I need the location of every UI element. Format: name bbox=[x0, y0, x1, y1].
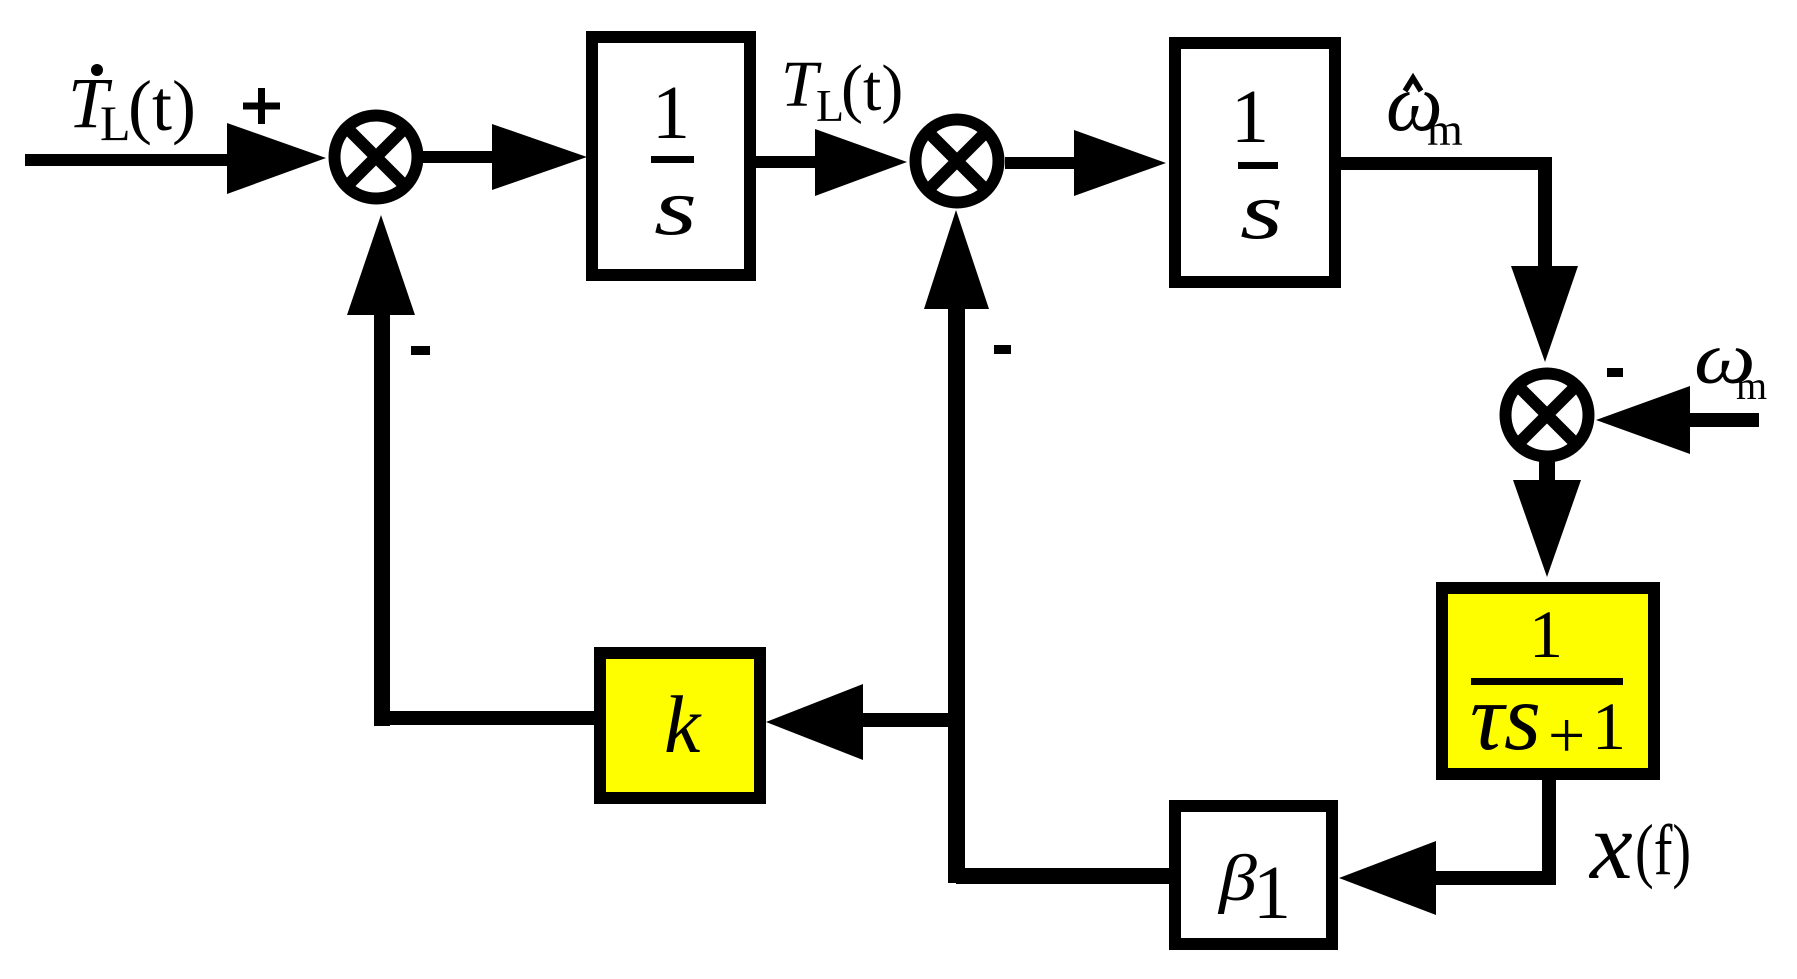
svg-text:(f): (f) bbox=[1635, 809, 1691, 890]
label T_L(t) bbox=[781, 48, 903, 131]
label - sign at S1 bbox=[411, 346, 430, 355]
wire: vertical feedback up to S2 bbox=[948, 308, 965, 883]
label Tdot_L(t) input signal bbox=[68, 63, 196, 151]
svg-text:β: β bbox=[1217, 842, 1258, 914]
wire: omega_m input from right bbox=[1690, 413, 1759, 427]
summing junction S3 bbox=[1506, 374, 1589, 457]
summing junction S1 bbox=[335, 116, 418, 199]
label omega_hat_m estimated speed bbox=[1386, 57, 1463, 155]
arrowhead: into integrator 1 bbox=[492, 124, 587, 190]
wire: k output to corner bbox=[381, 711, 594, 725]
wire: S1 to integrator 1 bbox=[422, 151, 492, 163]
svg-text:+: + bbox=[1548, 699, 1585, 772]
block U4: gain beta1 bbox=[1175, 806, 1332, 944]
arrowhead: up into S2 bbox=[924, 210, 989, 309]
svg-text:1: 1 bbox=[1529, 596, 1563, 672]
svg-text:1: 1 bbox=[1253, 851, 1291, 935]
wire: vertical down to S3 bbox=[1538, 157, 1552, 266]
svg-text:(t): (t) bbox=[128, 66, 196, 146]
wire: horizontal into beta block bbox=[1436, 871, 1556, 885]
svg-text:k: k bbox=[664, 679, 702, 770]
block U2: integrator 1/s bbox=[1175, 43, 1335, 282]
arrowhead: into beta1 block bbox=[1339, 841, 1436, 915]
arrowhead: omega_m into S3 bbox=[1596, 386, 1690, 454]
svg-text:(t): (t) bbox=[841, 52, 903, 125]
label + sign at S1 bbox=[243, 88, 280, 124]
wire: input signal line bbox=[25, 154, 227, 166]
svg-text:1: 1 bbox=[1592, 688, 1626, 764]
arrowhead: up into S1 bbox=[347, 215, 415, 315]
block U5: gain k, yellow bbox=[600, 653, 760, 798]
label x(f) bbox=[1588, 792, 1691, 899]
svg-text:L: L bbox=[816, 80, 844, 131]
svg-text:m: m bbox=[1736, 363, 1767, 408]
wire: integrator 1 to S2 bbox=[756, 156, 815, 168]
svg-text:τs: τs bbox=[1470, 664, 1541, 770]
summing junction S2 bbox=[916, 120, 999, 203]
svg-text:1: 1 bbox=[652, 71, 690, 155]
wire: integrator 2 output to corner bbox=[1341, 157, 1552, 170]
label - sign at S2 bbox=[994, 345, 1011, 354]
label - sign at S3 bbox=[1607, 368, 1623, 377]
label omega_m measured speed bbox=[1694, 317, 1767, 408]
block U3: low-pass filter 1/(tau s + 1), yellow bbox=[1442, 588, 1654, 774]
wire: branch to gain k bbox=[863, 713, 956, 727]
svg-text:x: x bbox=[1588, 792, 1633, 899]
svg-text:s: s bbox=[654, 162, 697, 253]
svg-text:L: L bbox=[100, 95, 131, 151]
wire: vertical feedback up to S1 bbox=[374, 314, 390, 726]
arrowhead: down into summing junction S3 bbox=[1511, 266, 1578, 362]
arrowhead: input into summing junction S1 bbox=[227, 123, 326, 194]
svg-text:1: 1 bbox=[1231, 75, 1269, 159]
wire: filter output down bbox=[1542, 780, 1556, 878]
arrowhead: into integrator 2 bbox=[1074, 130, 1166, 196]
wire: S3 down stub bbox=[1539, 460, 1555, 482]
wire: beta1 output to feedback node bbox=[956, 868, 1169, 884]
svg-text:m: m bbox=[1427, 104, 1463, 155]
arrowhead: into summing junction S2 bbox=[815, 129, 907, 196]
wire: S2 to integrator 2 bbox=[1005, 157, 1074, 169]
arrowhead: into gain k block bbox=[766, 684, 863, 760]
block U1: integrator 1/s bbox=[592, 37, 750, 275]
arrowhead: into filter block bbox=[1513, 480, 1581, 577]
svg-text:s: s bbox=[1240, 166, 1283, 257]
